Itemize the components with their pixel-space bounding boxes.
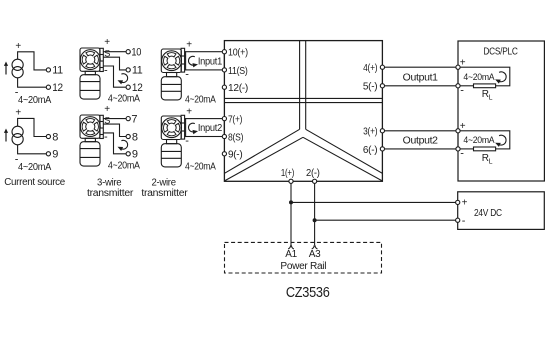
transmitter housing [161,116,181,140]
terminal 4(+) [363,62,384,74]
transmitter housing [80,48,100,71]
terminal 12 [46,85,50,89]
3-wire transmitter T1 [80,37,143,105]
svg-text:12: 12 [132,82,143,94]
wire - to terminal 12 [103,66,126,87]
wire - side to terminal 12 [18,78,47,87]
wire S to terminal 8 [103,124,126,136]
terminal 3(+) [363,126,384,138]
svg-text:+: + [186,40,192,51]
2-wire transmitter T3 [161,40,224,106]
transmitter housing [80,115,100,138]
plug fork A3 [312,245,318,249]
wire + to terminal 7 [103,118,126,120]
junction dot on + wire [289,200,293,204]
terminal 8 [46,134,50,138]
svg-text:4~20mA: 4~20mA [18,95,52,106]
wire + side to terminal 11 [18,52,47,70]
svg-text:4~20mA: 4~20mA [463,135,495,146]
transmitter housing [161,49,181,73]
svg-text:4~20mA: 4~20mA [108,94,140,105]
terminal + [456,129,460,133]
terminal - [456,147,460,151]
wire from terminal 2(-) down [314,183,316,245]
svg-text:3(+): 3(+) [363,126,377,138]
svg-text:4~20mA: 4~20mA [185,94,216,105]
svg-text:+: + [460,58,466,69]
input loop box Input2 [186,119,225,137]
junction dot on - wire [313,218,317,222]
svg-text:9(-): 9(-) [228,149,242,161]
wire output1 + [385,66,456,68]
wire output1 - [385,85,456,87]
svg-text:A3: A3 [309,249,321,260]
terminal strip [100,48,104,71]
svg-text:1(+): 1(+) [281,167,294,179]
svg-text:S: S [104,116,110,127]
svg-text:5(-): 5(-) [363,81,377,93]
svg-text:+: + [462,197,468,208]
svg-text:7: 7 [131,113,137,125]
terminal + [456,65,460,69]
DCS loop 1 [456,58,510,102]
loop arrow [189,123,198,134]
svg-text:Power Rail: Power Rail [280,261,326,272]
svg-text:11: 11 [132,65,143,77]
loop arrow [495,72,506,84]
svg-text:Current source: Current source [4,177,65,188]
terminal 8(S) [222,131,243,143]
neck [167,140,177,144]
terminal 10 [126,50,130,54]
current direction arrow [4,129,8,142]
terminal 7 [126,117,130,121]
svg-text:transmitter: transmitter [87,188,134,199]
svg-text:12(-): 12(-) [228,82,248,94]
svg-text:transmitter: transmitter [141,188,188,199]
svg-text:Input1: Input1 [198,56,223,67]
terminal 9 [126,152,130,156]
wire from terminal 1(+) down [290,183,292,245]
body [161,77,181,100]
current source CS1 [4,41,63,106]
terminal 6(-) [363,144,385,156]
input loop box Input1 [186,52,225,70]
svg-text:CZ3536: CZ3536 [286,285,330,301]
svg-text:6(-): 6(-) [363,144,377,156]
current direction arrow [4,62,8,75]
wire - to 24V DC [315,219,456,221]
svg-text:+: + [460,121,466,132]
svg-text:A1: A1 [285,249,297,260]
svg-text:24V DC: 24V DC [474,208,502,219]
current source symbol (two overlapping circles) [12,59,23,78]
svg-text:7(+): 7(+) [228,114,242,126]
power rail dashed box [225,242,382,273]
loop arrow [189,56,198,67]
isolator block CZ3536 outline [224,41,382,182]
terminal 8 [126,134,130,138]
3-wire transmitter T2 [80,104,140,172]
terminal - [456,84,460,88]
loop arrow [495,135,506,147]
plug fork A1 [288,245,294,249]
svg-text:2(-): 2(-) [306,167,320,179]
terminal 12(-) [222,82,248,94]
terminal 11 [126,68,130,72]
load resistor RL [474,84,496,88]
svg-text:8: 8 [52,131,58,143]
svg-text:Input2: Input2 [198,123,223,134]
wire + to 24V DC [291,201,456,203]
svg-text:4(+): 4(+) [363,62,377,74]
svg-text:8(S): 8(S) [228,131,243,143]
transmitter head [80,117,100,137]
terminal 24V + [456,200,460,204]
isolation barrier horizontal double line [224,98,382,102]
body [161,144,181,167]
terminal strip [181,48,185,72]
svg-text:Output1: Output1 [403,73,439,84]
svg-text:11: 11 [52,65,63,77]
svg-text:DCS/PLC: DCS/PLC [483,47,517,58]
svg-text:4~20mA: 4~20mA [185,161,216,172]
terminal 10(+) [222,47,248,59]
svg-text:+: + [104,104,110,115]
body [80,75,100,99]
svg-text:4~20mA: 4~20mA [108,161,140,172]
svg-text:+: + [104,37,110,48]
svg-text:10(+): 10(+) [228,47,248,59]
wire + side to terminal 8 [18,118,47,136]
isolation barrier left diagonal pair [225,129,304,181]
2-wire transmitter T4 [161,107,224,173]
transmitter head [162,51,182,71]
wire output2 + [385,130,456,132]
wire S to terminal 11 [103,57,126,70]
transmitter head [80,50,100,70]
caption 3-wire transmitter [87,178,134,199]
terminal strip [100,115,104,138]
terminal 24V - [456,218,460,222]
terminal 7(+) [222,114,242,126]
loop arrow [118,74,128,85]
svg-text:12: 12 [52,82,63,94]
svg-text:9: 9 [132,149,138,161]
neck [85,71,95,74]
svg-text:+: + [15,108,21,119]
svg-text:Output2: Output2 [403,136,439,147]
current source symbol (two overlapping circles) [12,126,23,145]
DCS loop 2 [456,121,510,165]
transmitter head [162,118,182,138]
svg-text:+: + [186,107,192,118]
svg-text:+: + [15,41,21,52]
terminal 1(+) [281,167,294,183]
current source CS2 [4,108,58,173]
terminal 9(-) [222,149,242,161]
terminal 5(-) [363,81,385,93]
terminal 12 [126,85,130,89]
terminal 9 [46,152,50,156]
svg-text:10: 10 [131,47,141,59]
neck [85,138,95,141]
isolation barrier vertical double line [300,41,306,130]
load loop box [458,67,510,86]
terminal strip [181,115,185,139]
svg-text:9: 9 [52,149,58,161]
svg-text:S: S [104,49,110,60]
terminal 2(-) [306,167,320,183]
svg-text:4~20mA: 4~20mA [463,72,495,83]
loop arrow [118,140,128,151]
body [80,142,100,166]
svg-text:11(S): 11(S) [228,65,248,77]
neck [167,73,177,77]
wire - side to terminal 9 [18,145,47,154]
terminal 11 [46,68,50,72]
load loop box [458,131,510,149]
load resistor RL [474,147,496,151]
svg-text:8: 8 [132,131,138,143]
DCS/PLC box [458,41,544,181]
wire - to terminal 9 [103,133,126,154]
terminal 11(S) [222,65,247,77]
wire output2 - [385,148,456,150]
svg-text:4~20mA: 4~20mA [18,162,52,173]
caption 2-wire transmitter [141,178,188,199]
wire + to terminal 10 [103,51,126,53]
isolation barrier right diagonal pair [303,129,382,181]
24V DC box [458,192,545,230]
